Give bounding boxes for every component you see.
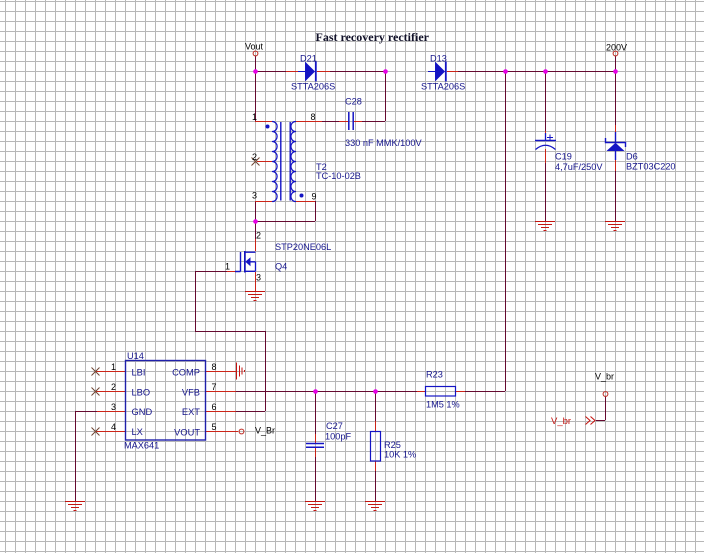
svg-text:Vout: Vout	[245, 42, 264, 52]
svg-text:100pF: 100pF	[325, 432, 351, 442]
svg-text:STTA206S: STTA206S	[291, 82, 335, 92]
svg-text:D6: D6	[626, 152, 638, 162]
svg-text:D13: D13	[430, 54, 447, 64]
svg-text:D21: D21	[300, 54, 317, 64]
svg-text:3: 3	[256, 273, 261, 283]
svg-text:10K 1%: 10K 1%	[384, 450, 416, 460]
svg-text:Fast recovery rectifier: Fast recovery rectifier	[316, 30, 430, 44]
svg-text:R25: R25	[384, 440, 401, 450]
svg-text:U14: U14	[127, 351, 144, 361]
svg-text:1: 1	[225, 262, 230, 272]
svg-text:EXT: EXT	[182, 407, 200, 417]
svg-text:VFB: VFB	[182, 388, 200, 398]
svg-text:TC-10-02B: TC-10-02B	[316, 171, 361, 181]
svg-text:COMP: COMP	[172, 368, 200, 378]
svg-text:200V: 200V	[606, 43, 627, 53]
svg-text:1: 1	[252, 112, 257, 122]
svg-text:Q4: Q4	[275, 262, 287, 272]
svg-text:LX: LX	[132, 427, 143, 437]
svg-text:2: 2	[252, 152, 257, 162]
svg-text:2: 2	[111, 382, 116, 392]
svg-text:BZT03C220: BZT03C220	[626, 162, 676, 172]
svg-text:V_Br: V_Br	[255, 426, 275, 436]
svg-text:3: 3	[111, 402, 116, 412]
svg-text:1: 1	[111, 362, 116, 372]
svg-text:C28: C28	[345, 97, 362, 107]
svg-text:VOUT: VOUT	[174, 428, 200, 438]
svg-text:330 nF MMK/100V: 330 nF MMK/100V	[345, 138, 422, 148]
svg-text:3: 3	[252, 191, 257, 201]
svg-text:V_br: V_br	[551, 416, 571, 427]
svg-text:MAX641: MAX641	[124, 441, 159, 451]
svg-text:C27: C27	[326, 421, 343, 431]
svg-text:STTA206S: STTA206S	[421, 82, 465, 92]
svg-text:LBO: LBO	[132, 388, 151, 398]
svg-text:GND: GND	[132, 407, 153, 417]
svg-text:R23: R23	[426, 370, 443, 380]
svg-text:7: 7	[212, 382, 217, 392]
svg-text:9: 9	[312, 192, 317, 202]
svg-text:V_br: V_br	[595, 372, 614, 382]
svg-text:1M5 1%: 1M5 1%	[426, 400, 460, 410]
svg-text:4: 4	[111, 422, 116, 432]
svg-text:8: 8	[311, 112, 316, 122]
svg-text:C19: C19	[555, 152, 572, 162]
svg-text:6: 6	[212, 402, 217, 412]
svg-text:8: 8	[212, 362, 217, 372]
svg-text:4,7uF/250V: 4,7uF/250V	[555, 162, 603, 172]
svg-text:5: 5	[212, 422, 217, 432]
svg-text:LBI: LBI	[132, 368, 146, 378]
svg-text:2: 2	[256, 231, 261, 241]
svg-text:STP20NE06L: STP20NE06L	[275, 242, 331, 252]
